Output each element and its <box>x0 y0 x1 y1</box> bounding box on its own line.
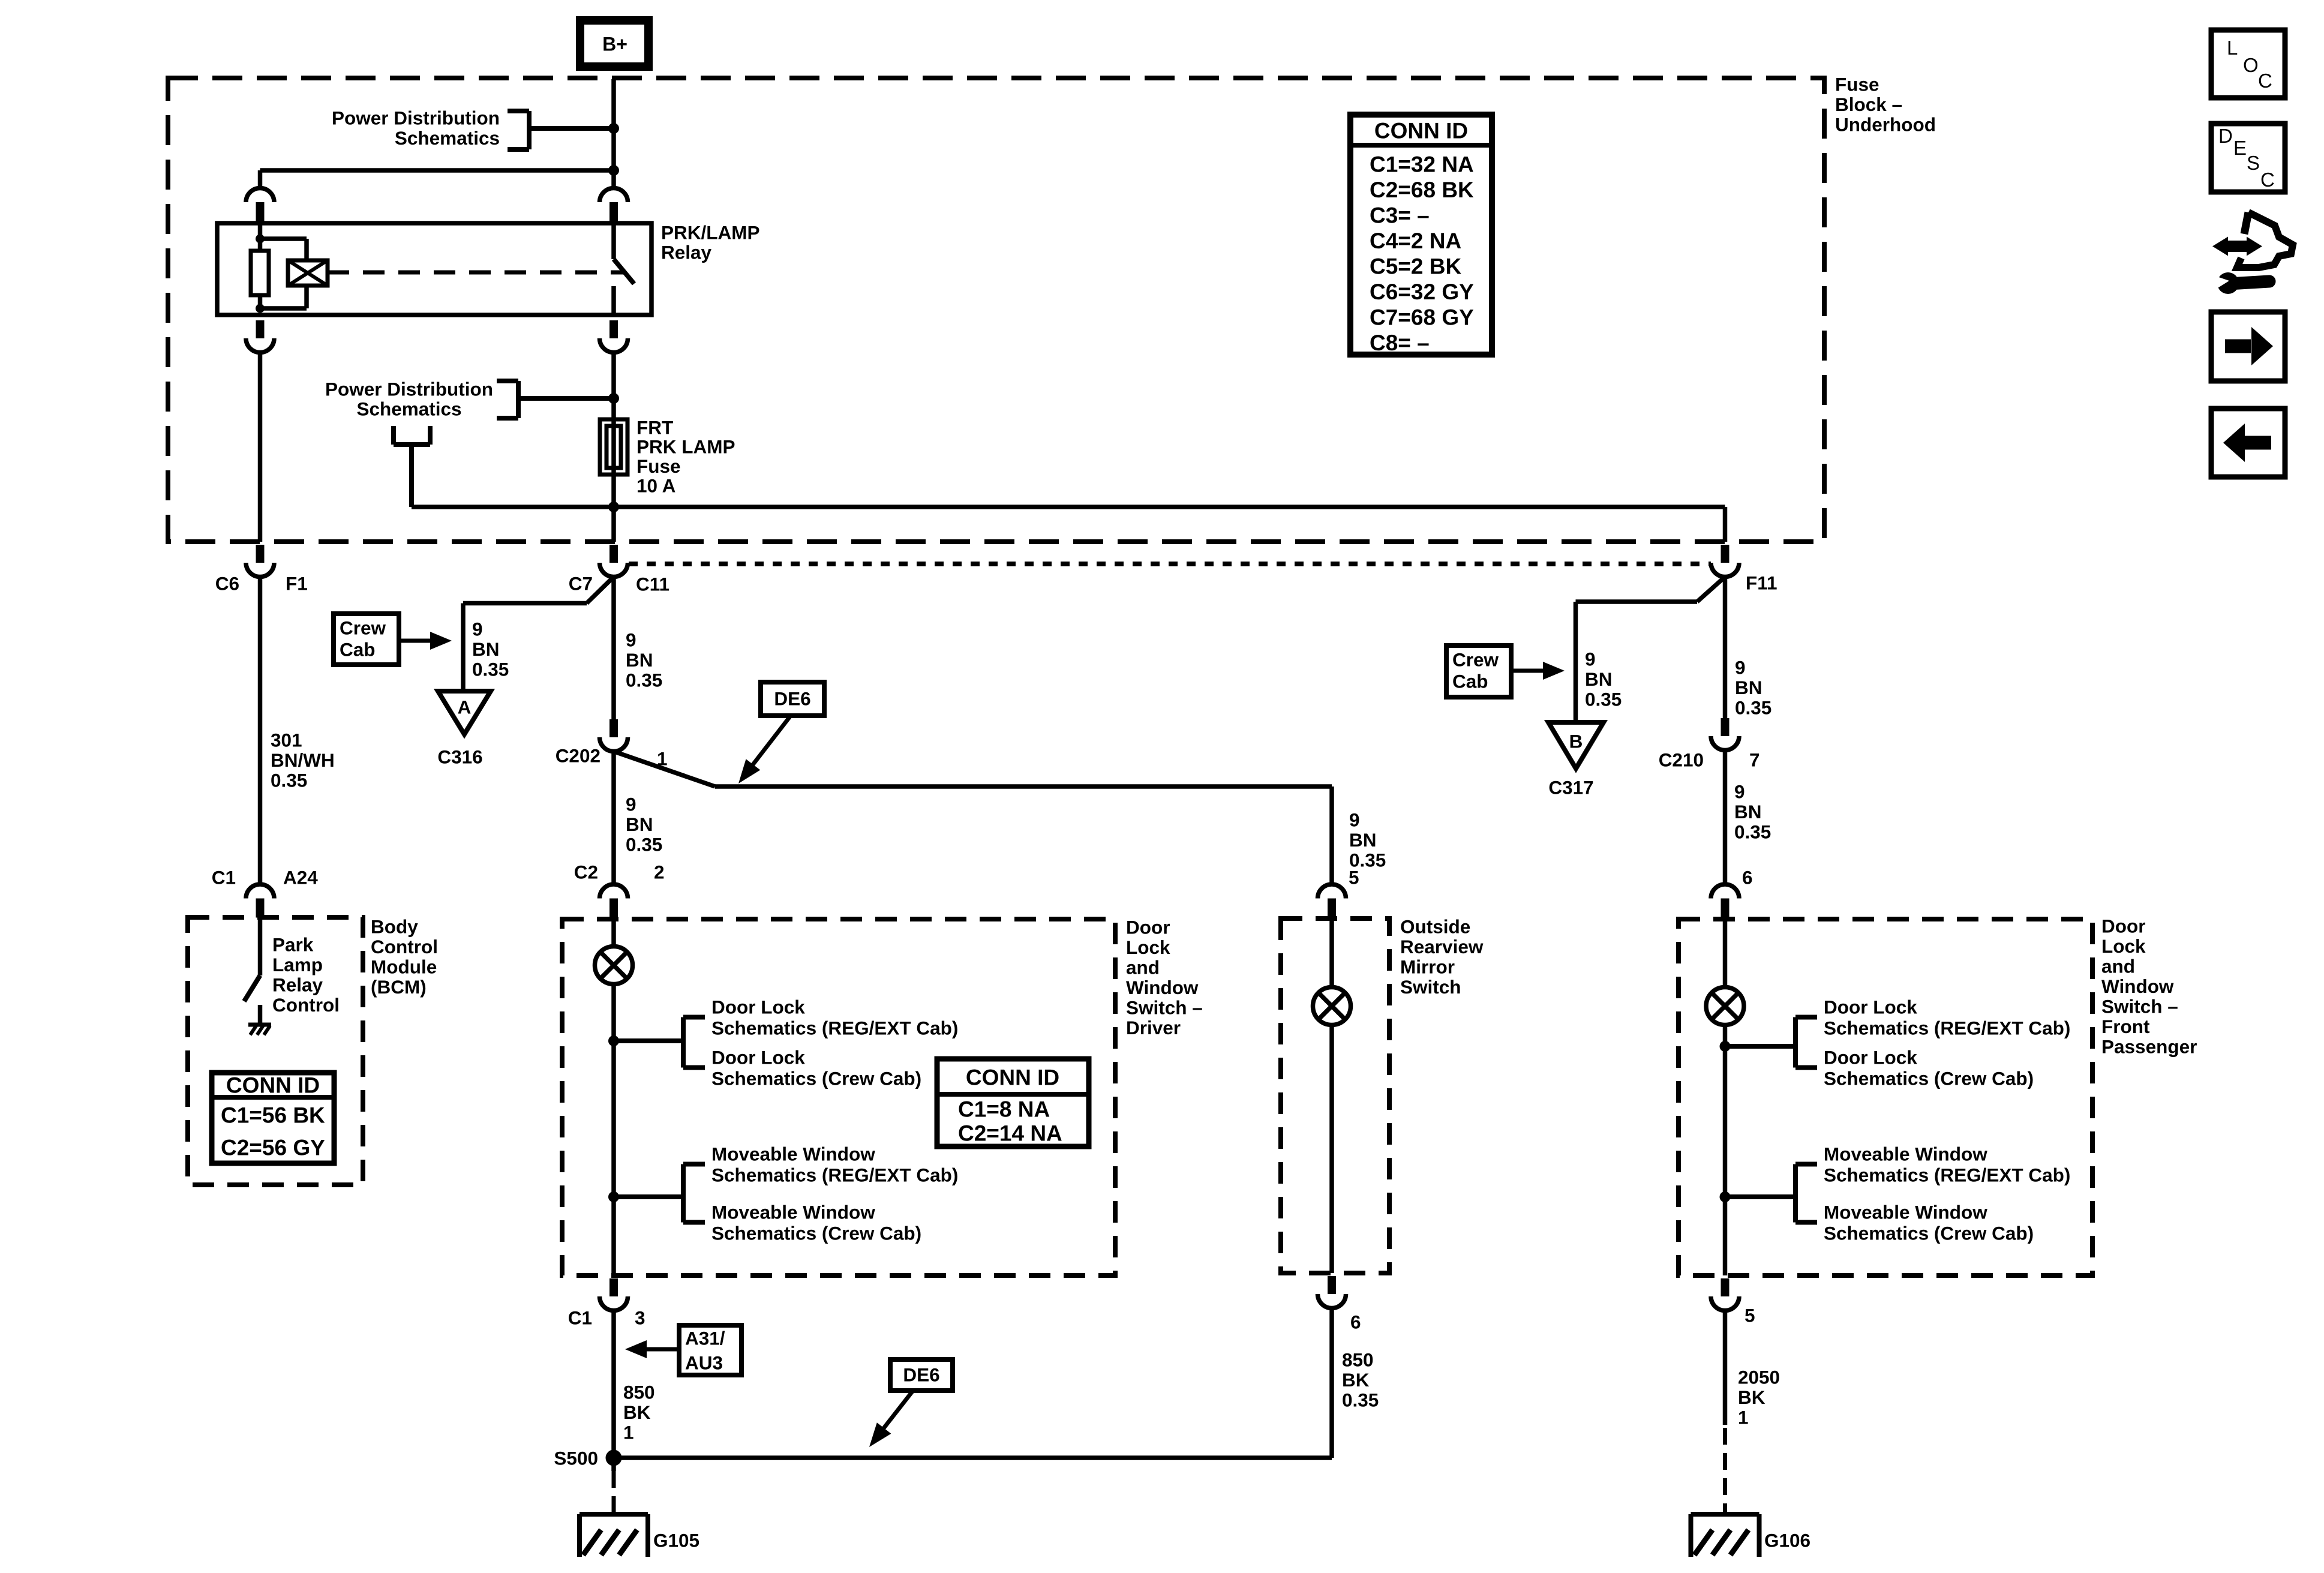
svg-text:C1=56 BK: C1=56 BK <box>221 1103 325 1127</box>
svg-text:850: 850 <box>623 1381 655 1403</box>
svg-text:G106: G106 <box>1764 1529 1810 1551</box>
svg-text:Body: Body <box>371 915 418 937</box>
svg-text:Outside: Outside <box>1400 915 1470 937</box>
svg-text:Crew: Crew <box>1452 649 1499 670</box>
svg-text:6: 6 <box>1350 1311 1361 1332</box>
svg-text:Lamp: Lamp <box>272 954 323 975</box>
svg-text:Fuse: Fuse <box>1835 73 1879 95</box>
svg-text:C1=8 NA: C1=8 NA <box>958 1097 1050 1121</box>
svg-text:5: 5 <box>1744 1304 1755 1326</box>
svg-text:A24: A24 <box>283 866 318 888</box>
svg-text:F1: F1 <box>286 572 308 594</box>
svg-text:Door Lock: Door Lock <box>711 996 805 1017</box>
svg-text:C2: C2 <box>574 861 598 882</box>
svg-text:Rearview: Rearview <box>1400 936 1484 957</box>
svg-text:A: A <box>458 696 472 718</box>
svg-text:Door Lock: Door Lock <box>1824 1046 1917 1068</box>
svg-text:Switch –: Switch – <box>2101 995 2178 1017</box>
svg-text:C317: C317 <box>1548 776 1593 798</box>
svg-text:Control: Control <box>272 994 340 1016</box>
svg-text:Passenger: Passenger <box>2101 1035 2197 1057</box>
svg-text:Cab: Cab <box>1452 670 1488 692</box>
svg-text:C11: C11 <box>636 573 669 595</box>
svg-text:Schematics (Crew Cab): Schematics (Crew Cab) <box>711 1067 921 1089</box>
svg-text:BN: BN <box>1349 829 1377 851</box>
svg-text:6: 6 <box>1742 866 1753 888</box>
svg-text:C2=68 BK: C2=68 BK <box>1370 178 1474 202</box>
svg-text:9: 9 <box>1735 656 1746 678</box>
svg-text:C316: C316 <box>437 746 482 767</box>
svg-text:Relay: Relay <box>661 241 712 263</box>
svg-text:Schematics (REG/EXT Cab): Schematics (REG/EXT Cab) <box>711 1017 958 1038</box>
svg-text:1: 1 <box>1738 1406 1749 1428</box>
svg-text:9: 9 <box>626 793 636 815</box>
svg-text:9: 9 <box>1585 648 1596 670</box>
svg-text:B: B <box>1569 730 1583 752</box>
svg-text:Mirror: Mirror <box>1400 956 1455 977</box>
svg-text:BN: BN <box>1734 801 1762 822</box>
svg-text:Cab: Cab <box>340 638 376 660</box>
svg-text:Moveable Window: Moveable Window <box>711 1143 875 1164</box>
svg-text:9: 9 <box>1734 781 1745 802</box>
svg-text:C: C <box>2258 70 2272 92</box>
svg-text:Lock: Lock <box>2101 935 2146 957</box>
svg-text:C4=2 NA: C4=2 NA <box>1370 229 1461 253</box>
svg-text:10 A: 10 A <box>636 475 675 497</box>
svg-text:C6: C6 <box>215 572 239 594</box>
svg-text:Schematics: Schematics <box>395 127 500 149</box>
svg-text:5: 5 <box>1349 866 1359 888</box>
svg-text:Moveable Window: Moveable Window <box>1824 1201 1987 1223</box>
svg-text:9: 9 <box>1349 809 1360 830</box>
svg-text:BN: BN <box>1585 668 1613 690</box>
svg-text:Schematics: Schematics <box>356 398 461 419</box>
svg-text:Crew: Crew <box>340 617 386 638</box>
svg-text:and: and <box>1126 956 1160 978</box>
svg-text:C7=68 GY: C7=68 GY <box>1370 305 1474 329</box>
svg-text:(BCM): (BCM) <box>371 976 427 998</box>
svg-text:F11: F11 <box>1746 572 1777 593</box>
svg-text:C1=32 NA: C1=32 NA <box>1370 152 1474 176</box>
svg-text:C210: C210 <box>1659 749 1704 770</box>
svg-text:2: 2 <box>654 861 665 882</box>
svg-text:Door Lock: Door Lock <box>1824 996 1917 1017</box>
svg-text:C1: C1 <box>568 1307 592 1328</box>
svg-text:C2=14 NA: C2=14 NA <box>958 1121 1062 1145</box>
svg-text:BN: BN <box>1735 677 1762 698</box>
svg-text:Switch: Switch <box>1400 976 1461 998</box>
svg-text:0.35: 0.35 <box>271 769 307 791</box>
svg-text:DE6: DE6 <box>903 1364 939 1385</box>
svg-text:PRK/LAMP: PRK/LAMP <box>661 221 760 243</box>
svg-text:C3= –: C3= – <box>1370 203 1430 227</box>
svg-text:CONN ID: CONN ID <box>966 1065 1059 1089</box>
svg-text:A31/: A31/ <box>685 1327 725 1349</box>
svg-text:Window: Window <box>2101 975 2174 997</box>
svg-text:0.35: 0.35 <box>626 669 662 691</box>
svg-text:Schematics (REG/EXT Cab): Schematics (REG/EXT Cab) <box>1824 1164 2070 1185</box>
svg-text:Fuse: Fuse <box>636 455 681 477</box>
svg-text:C202: C202 <box>556 745 600 766</box>
svg-text:Switch –: Switch – <box>1126 996 1203 1018</box>
svg-text:S: S <box>2247 152 2260 174</box>
svg-text:Power Distribution: Power Distribution <box>325 378 493 400</box>
svg-text:BK: BK <box>1738 1386 1765 1408</box>
svg-text:Module: Module <box>371 956 437 977</box>
svg-text:C2=56 GY: C2=56 GY <box>221 1135 325 1160</box>
svg-text:Moveable Window: Moveable Window <box>711 1201 875 1223</box>
svg-text:C1: C1 <box>212 866 236 888</box>
svg-text:Window: Window <box>1126 977 1199 998</box>
svg-text:PRK LAMP: PRK LAMP <box>636 436 735 458</box>
svg-text:Schematics (Crew Cab): Schematics (Crew Cab) <box>1824 1067 2034 1089</box>
svg-text:S500: S500 <box>554 1447 598 1469</box>
svg-text:0.35: 0.35 <box>1734 821 1771 842</box>
svg-text:D: D <box>2218 125 2233 147</box>
svg-text:0.35: 0.35 <box>1585 688 1622 710</box>
svg-text:and: and <box>2101 955 2135 977</box>
svg-text:Relay: Relay <box>272 974 323 995</box>
svg-text:DE6: DE6 <box>774 688 810 709</box>
svg-text:301: 301 <box>271 729 302 751</box>
svg-text:0.35: 0.35 <box>472 658 509 680</box>
svg-text:Moveable Window: Moveable Window <box>1824 1143 1987 1164</box>
svg-text:Schematics (REG/EXT Cab): Schematics (REG/EXT Cab) <box>1824 1017 2070 1038</box>
svg-text:C5=2 BK: C5=2 BK <box>1370 254 1461 278</box>
svg-text:BN: BN <box>472 638 500 660</box>
svg-text:3: 3 <box>635 1307 645 1328</box>
svg-text:AU3: AU3 <box>685 1352 723 1373</box>
svg-text:Schematics (Crew Cab): Schematics (Crew Cab) <box>1824 1222 2034 1244</box>
svg-text:L: L <box>2227 37 2238 59</box>
svg-text:Schematics (REG/EXT Cab): Schematics (REG/EXT Cab) <box>711 1164 958 1185</box>
svg-text:Park: Park <box>272 933 314 955</box>
svg-text:C: C <box>2260 169 2275 191</box>
svg-text:O: O <box>2243 54 2259 76</box>
svg-text:BN: BN <box>626 649 653 671</box>
svg-text:BN: BN <box>626 813 653 835</box>
svg-text:CONN ID: CONN ID <box>226 1073 320 1097</box>
svg-text:CONN ID: CONN ID <box>1374 118 1468 143</box>
svg-text:9: 9 <box>626 629 636 650</box>
svg-text:Lock: Lock <box>1126 936 1170 958</box>
svg-text:Door: Door <box>1126 916 1170 938</box>
svg-text:G105: G105 <box>653 1529 699 1551</box>
svg-text:Driver: Driver <box>1126 1017 1181 1038</box>
svg-text:7: 7 <box>1749 749 1760 770</box>
svg-text:0.35: 0.35 <box>1342 1389 1379 1410</box>
svg-text:Block –: Block – <box>1835 94 1902 115</box>
svg-text:Front: Front <box>2101 1016 2150 1037</box>
svg-text:1: 1 <box>623 1421 634 1443</box>
svg-text:BN/WH: BN/WH <box>271 749 335 771</box>
svg-text:B+: B+ <box>602 34 627 55</box>
svg-text:BK: BK <box>1342 1369 1370 1391</box>
svg-text:Control: Control <box>371 936 438 957</box>
svg-text:C7: C7 <box>569 572 593 594</box>
svg-text:C8= –: C8= – <box>1370 331 1430 355</box>
svg-text:9: 9 <box>472 618 483 640</box>
svg-text:Door: Door <box>2101 915 2146 936</box>
svg-text:FRT: FRT <box>636 416 673 438</box>
svg-text:2050: 2050 <box>1738 1366 1780 1388</box>
svg-text:Power Distribution: Power Distribution <box>332 107 500 128</box>
svg-text:0.35: 0.35 <box>626 833 662 855</box>
svg-text:850: 850 <box>1342 1349 1374 1370</box>
svg-text:Schematics (Crew Cab): Schematics (Crew Cab) <box>711 1222 921 1244</box>
svg-text:C6=32 GY: C6=32 GY <box>1370 280 1474 304</box>
svg-text:Underhood: Underhood <box>1835 113 1936 135</box>
svg-text:E: E <box>2233 137 2247 159</box>
svg-text:0.35: 0.35 <box>1735 697 1771 718</box>
svg-text:Door Lock: Door Lock <box>711 1046 805 1068</box>
svg-text:BK: BK <box>623 1401 651 1423</box>
